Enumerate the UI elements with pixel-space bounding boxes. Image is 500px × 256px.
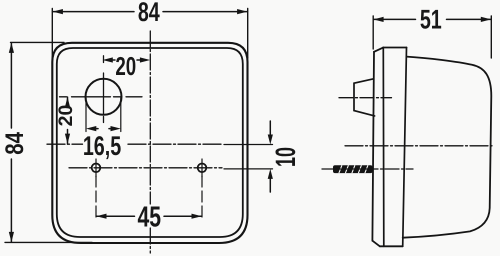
front view horizontal centerline (47, 143, 83, 145)
dimension 84 left: bottom extension line (5, 241, 92, 243)
label 16,5 (83, 131, 121, 161)
side view boss centerline (339, 97, 392, 99)
dimension 45: left arrow (96, 214, 106, 219)
circle horizontal centerline (60, 96, 143, 98)
front view vertical centerline (149, 31, 151, 204)
dimension 84 top: right extension line (247, 9, 249, 59)
label 45 (138, 202, 162, 234)
dimension 16,5 diameter: left extension line (85, 98, 87, 132)
front view outer outline (52, 43, 247, 243)
dimension 84 left: top extension line (11, 41, 65, 43)
svg-text:45: 45 (138, 202, 162, 234)
side view back plate top bevel (374, 48, 383, 52)
side view seam line 2 (403, 48, 407, 247)
dimension 45: line (96, 215, 201, 217)
side view lens outline (403, 57, 492, 238)
side view back plate bottom edge (380, 245, 403, 247)
svg-text:16,5: 16,5 (83, 131, 121, 161)
svg-text:10: 10 (270, 147, 301, 167)
front view inner lens outline (57, 48, 243, 237)
label 84 top (138, 0, 160, 27)
dimension 84 top: right arrow (237, 9, 247, 14)
dimension 51: right arrow (481, 17, 491, 22)
dimension 84 left: bottom arrow (9, 232, 14, 242)
svg-text:51: 51 (420, 5, 442, 35)
svg-text:84: 84 (138, 0, 160, 27)
dimension 84 top: left extension line (51, 9, 53, 79)
side view threaded stud (333, 165, 373, 173)
side view horizontal centerline (345, 145, 492, 147)
dimension 84 left: line (10, 43, 12, 243)
circle vertical centerline (103, 56, 105, 123)
dimension 51: left arrow (373, 17, 383, 22)
side view seam line 1 (382, 48, 385, 247)
hole extension line right (201, 176, 203, 221)
mounting hole right (198, 164, 207, 173)
svg-text:20: 20 (55, 105, 77, 127)
dimension 45: right arrow (192, 214, 202, 219)
dimension 20 top: left arrow (103, 57, 113, 62)
dimension 20 left: bottom arrow (65, 134, 70, 144)
dimension 51: right extension line (490, 16, 492, 58)
dimension 84 top: line (53, 11, 248, 13)
mounting holes centerline (69, 167, 222, 169)
label 51 (420, 5, 442, 35)
dimension 16,5 diameter: left arrow (86, 126, 96, 131)
dimension 84 top: left arrow (53, 9, 63, 14)
dimension 51: left extension line (372, 16, 374, 49)
side view back plate left face (372, 52, 374, 241)
svg-text:20: 20 (115, 51, 136, 81)
side view back plate top edge (383, 47, 406, 49)
dimension 20 top: right arrow (140, 57, 150, 62)
dimension 16,5 diameter: right arrow (111, 126, 121, 131)
svg-text:84: 84 (1, 131, 29, 154)
side view back plate bottom bevel (372, 241, 379, 247)
label 84 left (rotated) (1, 131, 29, 154)
label 10 (rotated) (270, 147, 301, 167)
dimension 84 left: top arrow (9, 43, 14, 53)
label 20 left (rotated) (55, 105, 77, 127)
side view mounting boss (354, 79, 375, 116)
dimension 16,5 diameter: right extension line (120, 98, 122, 132)
dimension 10: dim line with arrows (269, 121, 271, 192)
dimension 20 left: top arrow (65, 97, 70, 107)
side view stud centerline (322, 168, 413, 170)
dimension 51: line (373, 18, 491, 20)
dimension 20 left: line (67, 97, 69, 144)
bulb hole circle (86, 79, 122, 115)
hole extension line left (95, 176, 97, 221)
mounting hole left (92, 164, 101, 173)
label 20 top (115, 51, 136, 81)
